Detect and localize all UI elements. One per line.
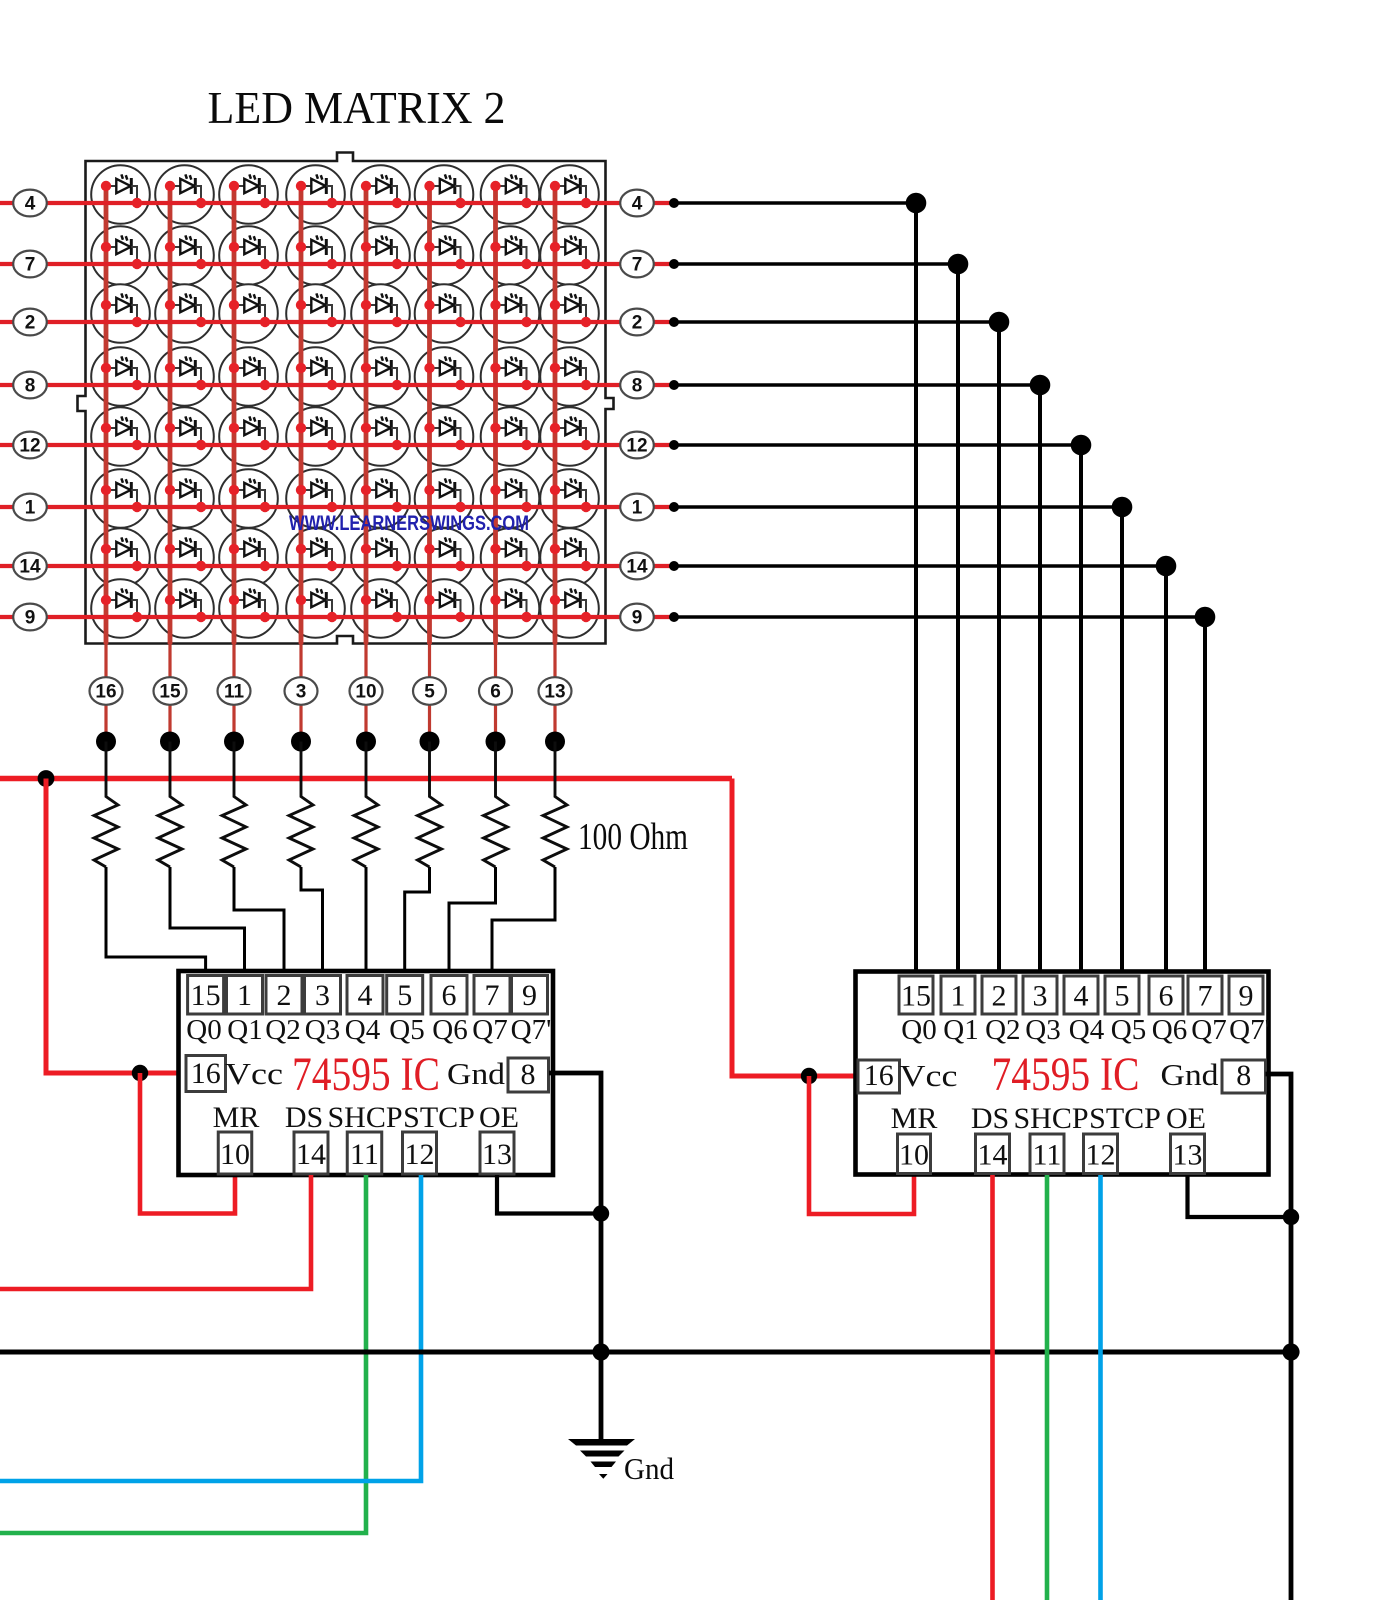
- resistor R8 100 Ohm (column 13): [543, 742, 567, 868]
- U2 pin 6 box: [1149, 976, 1183, 1014]
- svg-text:STCP: STCP: [1089, 1102, 1161, 1135]
- LED row 2 col 10: [361, 293, 402, 327]
- U2 label Gnd: [1161, 1057, 1220, 1092]
- svg-text:Q6: Q6: [1152, 1014, 1187, 1046]
- U1 pin 11 box: [347, 1132, 382, 1174]
- junction column 11 node: [224, 732, 244, 752]
- LED row 7 col 15: [165, 235, 206, 269]
- LED row 4 col 13: [550, 174, 591, 208]
- U2 label MR: [891, 1102, 938, 1135]
- LED row 8 col 10: [361, 356, 402, 390]
- wire U2 OE to ground rail: [1188, 1175, 1292, 1217]
- U1 label DS: [285, 1101, 323, 1134]
- U1 pin 4 box: [347, 976, 383, 1015]
- LED row 4 col 3: [296, 174, 337, 208]
- title label LED MATRIX 2: [208, 82, 506, 133]
- svg-text:13: 13: [482, 1138, 512, 1171]
- resistor R2 100 Ohm (column 15): [158, 742, 182, 868]
- junction small dot row 1: [669, 502, 679, 512]
- LED row 14 col 11: [229, 537, 270, 571]
- wire U2 pin 8 Gnd to bottom edge: [1266, 1074, 1292, 1600]
- column anode wire to pin 3: [299, 186, 304, 742]
- U2 pin 9 box: [1229, 976, 1263, 1014]
- U1 label Q5: [389, 1014, 424, 1046]
- IC U1 74595 body: [179, 971, 554, 1175]
- wire row 8 to U2 pin: [674, 385, 1040, 976]
- LED row 2 col 11: [229, 293, 270, 327]
- LED row 7 col 3: [296, 235, 337, 269]
- junction U2 Vcc / MR tap: [801, 1068, 817, 1084]
- U2 label Q6: [1152, 1014, 1187, 1046]
- LED row 4 col 15: [165, 174, 206, 208]
- junction row 1 / column tap: [1112, 497, 1133, 518]
- svg-text:10: 10: [899, 1139, 929, 1172]
- junction U1 OE / ground rail: [593, 1205, 609, 1221]
- svg-text:14: 14: [296, 1138, 326, 1171]
- svg-text:7: 7: [632, 255, 643, 276]
- svg-text:Q4: Q4: [1069, 1014, 1105, 1046]
- svg-text:Vcc: Vcc: [225, 1056, 283, 1091]
- LED row 4 col 11: [229, 174, 270, 208]
- junction small dot row 12: [669, 440, 679, 450]
- LED row 9 col 13: [550, 588, 591, 622]
- svg-text:Vcc: Vcc: [900, 1058, 958, 1093]
- svg-text:DS: DS: [285, 1101, 323, 1134]
- label Gnd: [624, 1451, 674, 1486]
- junction small dot row 8: [669, 380, 679, 390]
- svg-text:7: 7: [485, 979, 500, 1012]
- row cathode wire pin 14: [0, 564, 674, 568]
- wire U1 OE to ground node: [497, 1175, 601, 1214]
- svg-text:11: 11: [224, 682, 245, 703]
- junction row 14 / column tap: [1156, 556, 1177, 577]
- svg-text:Q7': Q7': [1229, 1014, 1270, 1046]
- svg-text:7: 7: [25, 255, 36, 276]
- matrix row pin 7 (right): [620, 251, 654, 278]
- U2 label SHCP: [1013, 1102, 1088, 1135]
- svg-text:Gnd: Gnd: [624, 1451, 674, 1486]
- row cathode wire pin 4: [0, 201, 674, 205]
- matrix column pin 3 (bottom): [285, 677, 318, 705]
- U1 label Gnd: [447, 1056, 506, 1091]
- svg-text:Q3: Q3: [1025, 1014, 1060, 1046]
- svg-text:15: 15: [191, 979, 221, 1012]
- LED row 2 col 13: [550, 293, 591, 327]
- svg-text:SHCP: SHCP: [1013, 1102, 1088, 1135]
- wire U1 STCP (cyan) to left edge: [0, 1175, 421, 1481]
- wire U1 DS (red) to left edge: [0, 1175, 311, 1289]
- LED row 8 col 6: [490, 356, 531, 390]
- junction row 8 / column tap: [1030, 375, 1051, 396]
- svg-text:Q7: Q7: [472, 1014, 507, 1046]
- U1 pin 6 box: [431, 976, 467, 1015]
- junction small dot row 7: [669, 259, 679, 269]
- junction column 15 node: [160, 732, 180, 752]
- U2 label Q3: [1025, 1014, 1060, 1046]
- svg-text:13: 13: [1173, 1139, 1203, 1172]
- junction bus / U2 ground rail: [1282, 1343, 1299, 1360]
- LED row 7 col 5: [424, 235, 465, 269]
- U2 label Q1: [943, 1014, 978, 1046]
- ground bus wire: [0, 1350, 1291, 1355]
- junction column 16 node: [96, 732, 116, 752]
- wire U2 STCP (cyan) to bottom edge: [1098, 1175, 1103, 1600]
- column anode wire to pin 10: [364, 186, 369, 742]
- LED row 14 col 5: [424, 537, 465, 571]
- U2 label STCP: [1089, 1102, 1161, 1135]
- wire R4 to U1 pin 3: [301, 867, 323, 976]
- U2 label Q7: [1191, 1014, 1226, 1046]
- svg-text:Q5: Q5: [389, 1014, 424, 1046]
- svg-text:9: 9: [632, 608, 643, 629]
- svg-text:7: 7: [1198, 980, 1213, 1013]
- svg-text:Q3: Q3: [305, 1014, 340, 1046]
- LED row 7 col 16: [101, 235, 142, 269]
- wire U1 SHCP (green) to left edge: [0, 1175, 366, 1533]
- LED row 2 col 3: [296, 293, 337, 327]
- svg-text:8: 8: [632, 376, 643, 397]
- resistor R5 100 Ohm (column 10): [354, 742, 378, 868]
- U1 label Q4: [345, 1014, 381, 1046]
- svg-text:WWW.LEARNERSWINGS.COM: WWW.LEARNERSWINGS.COM: [289, 512, 529, 535]
- wire U2 SHCP (green) to bottom edge: [1045, 1175, 1050, 1600]
- junction U1 Vcc / MR tap: [132, 1065, 148, 1081]
- LED row 8 col 5: [424, 356, 465, 390]
- svg-text:10: 10: [220, 1138, 250, 1171]
- LED row 8 col 15: [165, 356, 206, 390]
- junction ground rail / bus: [592, 1343, 609, 1360]
- junction column 6 node: [486, 732, 506, 752]
- U1 label OE: [479, 1101, 519, 1134]
- LED row 12 col 13: [550, 416, 591, 450]
- svg-text:MR: MR: [213, 1101, 260, 1134]
- wire row 2 to U2 pin: [674, 322, 999, 976]
- LED row 12 col 5: [424, 416, 465, 450]
- wire R2 to U1 pin 1: [170, 867, 245, 976]
- LED row 1 col 3: [296, 478, 337, 512]
- LED row 7 col 11: [229, 235, 270, 269]
- matrix row pin 9 (left): [13, 604, 47, 631]
- LED row 7 col 10: [361, 235, 402, 269]
- matrix row pin 1 (right): [620, 494, 654, 521]
- svg-text:5: 5: [397, 979, 412, 1012]
- LED row 7 col 13: [550, 235, 591, 269]
- column anode wire to pin 6: [493, 186, 498, 742]
- U2 label 74595 IC: [992, 1048, 1140, 1101]
- matrix column pin 10 (bottom): [350, 677, 383, 705]
- junction column 3 node: [291, 732, 311, 752]
- LED row 1 col 15: [165, 478, 206, 512]
- resistor R7 100 Ohm (column 6): [484, 742, 508, 868]
- U1 label STCP: [403, 1101, 475, 1134]
- svg-text:4: 4: [1074, 980, 1089, 1013]
- U2 label DS: [971, 1102, 1009, 1135]
- LED row 1 col 16: [101, 478, 142, 512]
- LED row 9 col 6: [490, 588, 531, 622]
- wire row 14 to U2 pin: [674, 566, 1166, 976]
- svg-text:16: 16: [191, 1057, 221, 1090]
- svg-text:12: 12: [405, 1138, 435, 1171]
- wire U2 DS (red) to bottom edge: [990, 1175, 995, 1600]
- U1 pin 13 box: [480, 1132, 514, 1174]
- U1 pin 5 box: [387, 976, 423, 1015]
- LED row 1 col 5: [424, 478, 465, 512]
- svg-text:16: 16: [864, 1059, 894, 1092]
- junction row 2 / column tap: [989, 312, 1010, 333]
- wire R5 to U1 pin 4: [365, 867, 368, 976]
- svg-text:OE: OE: [479, 1101, 519, 1134]
- LED row 12 col 10: [361, 416, 402, 450]
- LED row 8 col 16: [101, 356, 142, 390]
- U1 pin 16 box: [186, 1056, 226, 1092]
- svg-text:2: 2: [25, 313, 36, 334]
- svg-text:Q6: Q6: [432, 1014, 467, 1046]
- svg-text:100 Ohm: 100 Ohm: [578, 816, 688, 858]
- matrix row pin 2 (left): [13, 309, 47, 336]
- U2 label Q0: [901, 1014, 936, 1046]
- svg-text:74595 IC: 74595 IC: [992, 1048, 1140, 1101]
- junction row 4 / column tap: [906, 193, 927, 214]
- U2 pin 16 box: [858, 1059, 900, 1093]
- svg-text:Q5: Q5: [1111, 1014, 1146, 1046]
- junction column 5 node: [420, 732, 440, 752]
- svg-text:1: 1: [25, 498, 36, 519]
- matrix row pin 2 (right): [620, 309, 654, 336]
- svg-text:3: 3: [1033, 980, 1048, 1013]
- svg-text:1: 1: [632, 498, 643, 519]
- column anode wire to pin 13: [553, 186, 558, 742]
- U1 label MR: [213, 1101, 260, 1134]
- U2 pin 11 box: [1030, 1134, 1064, 1174]
- matrix row pin 8 (right): [620, 372, 654, 399]
- junction column 10 node: [356, 732, 376, 752]
- U1 pin 7 box: [474, 976, 510, 1015]
- LED row 9 col 11: [229, 588, 270, 622]
- U1 label Q0: [186, 1014, 221, 1046]
- junction small dot row 9: [669, 612, 679, 622]
- svg-text:Gnd: Gnd: [447, 1056, 506, 1091]
- wire Vcc to U1 pin 16: [46, 779, 178, 1074]
- LED row 12 col 16: [101, 416, 142, 450]
- svg-text:8: 8: [521, 1058, 536, 1091]
- wire R3 to U1 pin 2: [234, 867, 284, 976]
- matrix row pin 12 (left): [13, 432, 47, 459]
- svg-text:LED MATRIX 2: LED MATRIX 2: [208, 82, 506, 133]
- U2 pin 12 box: [1084, 1134, 1118, 1174]
- LED row 4 col 10: [361, 174, 402, 208]
- svg-text:Q7: Q7: [1191, 1014, 1226, 1046]
- svg-text:4: 4: [358, 979, 373, 1012]
- matrix column pin 13 (bottom): [539, 677, 572, 705]
- LED row 14 col 10: [361, 537, 402, 571]
- LED row 12 col 15: [165, 416, 206, 450]
- svg-text:1: 1: [951, 980, 966, 1013]
- LED row 2 col 15: [165, 293, 206, 327]
- U1 label SHCP: [327, 1101, 402, 1134]
- U2 pin 15 box: [899, 976, 933, 1014]
- U1 pin 2 box: [266, 976, 302, 1015]
- svg-text:16: 16: [95, 682, 116, 703]
- svg-text:13: 13: [544, 682, 565, 703]
- U1 pin 9 box: [512, 976, 548, 1015]
- matrix column pin 15 (bottom): [154, 677, 187, 705]
- ground symbol: [568, 1439, 635, 1479]
- wire Vcc to U2 pin 16: [732, 779, 855, 1077]
- wire R1 to U1 pin 15: [106, 867, 206, 976]
- U1 label Q7: [472, 1014, 507, 1046]
- column anode wire to pin 15: [168, 186, 173, 742]
- resistor R1 100 Ohm (column 16): [94, 742, 118, 868]
- svg-text:6: 6: [490, 682, 501, 703]
- matrix row pin 14 (right): [620, 553, 654, 580]
- LED row 2 col 5: [424, 293, 465, 327]
- svg-text:12: 12: [1086, 1139, 1116, 1172]
- LED row 9 col 15: [165, 588, 206, 622]
- junction small dot row 2: [669, 317, 679, 327]
- svg-text:9: 9: [1239, 980, 1254, 1013]
- U2 pin 8 box: [1222, 1059, 1266, 1093]
- U2 label OE: [1166, 1102, 1206, 1135]
- svg-text:Q0: Q0: [901, 1014, 936, 1046]
- wire row 12 to U2 pin: [674, 445, 1081, 976]
- LED row 14 col 3: [296, 537, 337, 571]
- svg-text:5: 5: [1115, 980, 1130, 1013]
- svg-text:6: 6: [1159, 980, 1174, 1013]
- U1 pin 15 box: [188, 976, 224, 1015]
- U2 label Q5: [1111, 1014, 1146, 1046]
- LED row 2 col 16: [101, 293, 142, 327]
- U1 pin 10 box: [218, 1132, 252, 1174]
- svg-text:6: 6: [442, 979, 457, 1012]
- wire R6 to U1 pin 5: [405, 867, 430, 976]
- svg-text:9: 9: [25, 608, 36, 629]
- U1 pin 8 box: [508, 1058, 549, 1092]
- svg-text:9: 9: [522, 979, 537, 1012]
- LED row 14 col 13: [550, 537, 591, 571]
- column anode wire to pin 5: [427, 186, 432, 742]
- matrix column pin 11 (bottom): [218, 677, 251, 705]
- row cathode wire pin 9: [0, 615, 674, 619]
- LED matrix 2 module frame: [78, 153, 614, 644]
- U2 pin 1 box: [941, 976, 975, 1014]
- LED row 7 col 6: [490, 235, 531, 269]
- svg-text:15: 15: [901, 980, 931, 1013]
- resistor R4 100 Ohm (column 3): [289, 742, 313, 868]
- resistor R6 100 Ohm (column 5): [418, 742, 442, 868]
- junction U2 OE / ground rail: [1283, 1209, 1299, 1225]
- junction row 12 / column tap: [1071, 435, 1092, 456]
- LED row 8 col 11: [229, 356, 270, 390]
- matrix row pin 7 (left): [13, 251, 47, 278]
- Vcc supply bus wire (red): [0, 776, 732, 781]
- junction small dot row 14: [669, 561, 679, 571]
- matrix row pin 9 (right): [620, 604, 654, 631]
- LED row 12 col 6: [490, 416, 531, 450]
- wire row 9 to U2 pin: [674, 617, 1205, 976]
- U1 label Q7': [511, 1014, 552, 1046]
- U2 label Vcc: [900, 1058, 958, 1093]
- svg-text:14: 14: [626, 557, 648, 578]
- svg-text:15: 15: [159, 682, 181, 703]
- U1 pin 14 box: [294, 1132, 328, 1174]
- U1 label Vcc: [225, 1056, 283, 1091]
- LED row 12 col 3: [296, 416, 337, 450]
- junction small dot row 4: [669, 198, 679, 208]
- junction row 9 / column tap: [1195, 607, 1216, 628]
- svg-text:11: 11: [350, 1138, 379, 1171]
- resistor R3 100 Ohm (column 11): [222, 742, 246, 868]
- LED row 4 col 16: [101, 174, 142, 208]
- U1 label Q6: [432, 1014, 467, 1046]
- svg-text:12: 12: [19, 436, 40, 457]
- U2 pin 2 box: [982, 976, 1016, 1014]
- LED row 14 col 15: [165, 537, 206, 571]
- LED row 9 col 3: [296, 588, 337, 622]
- svg-text:Q2: Q2: [985, 1014, 1020, 1046]
- LED row 14 col 16: [101, 537, 142, 571]
- LED row 2 col 6: [490, 293, 531, 327]
- U1 label Q3: [305, 1014, 340, 1046]
- U2 label Q2: [985, 1014, 1020, 1046]
- label 100 Ohm: [578, 816, 688, 858]
- wire row 4 to U2 pin: [674, 203, 916, 976]
- column anode wire to pin 11: [232, 186, 237, 742]
- U1 pin 1 box: [227, 976, 263, 1015]
- matrix column pin 5 (bottom): [413, 677, 446, 705]
- IC U2 74595 body: [856, 972, 1269, 1175]
- svg-text:STCP: STCP: [403, 1101, 475, 1134]
- U2 pin 14 box: [976, 1134, 1010, 1174]
- svg-text:Q0: Q0: [186, 1014, 221, 1046]
- matrix column pin 6 (bottom): [479, 677, 512, 705]
- LED row 1 col 10: [361, 478, 402, 512]
- U1 label Q1: [227, 1014, 262, 1046]
- wire row 1 to U2 pin: [674, 507, 1122, 976]
- U2 pin 13 box: [1171, 1134, 1205, 1174]
- matrix row pin 8 (left): [13, 372, 47, 399]
- svg-text:3: 3: [315, 979, 330, 1012]
- svg-text:4: 4: [632, 194, 643, 215]
- row cathode wire pin 1: [0, 505, 674, 509]
- U2 label Q7': [1229, 1014, 1270, 1046]
- wire U1 MR loop pin10 to Vcc: [140, 1073, 235, 1214]
- LED row 4 col 5: [424, 174, 465, 208]
- LED row 1 col 6: [490, 478, 531, 512]
- svg-text:Q4: Q4: [345, 1014, 381, 1046]
- LED row 14 col 6: [490, 537, 531, 571]
- row cathode wire pin 12: [0, 443, 674, 447]
- svg-text:OE: OE: [1166, 1102, 1206, 1135]
- wire row 7 to U2 pin: [674, 264, 958, 976]
- row cathode wire pin 8: [0, 383, 674, 387]
- junction Vcc bus / U1 tap: [38, 770, 55, 787]
- LED row 1 col 11: [229, 478, 270, 512]
- svg-text:74595 IC: 74595 IC: [292, 1048, 440, 1101]
- wire U1 pin 8 Gnd to ground rail: [549, 1073, 601, 1441]
- svg-text:2: 2: [632, 313, 643, 334]
- svg-text:2: 2: [992, 980, 1007, 1013]
- LED row 9 col 5: [424, 588, 465, 622]
- U1 label Q2: [265, 1014, 300, 1046]
- svg-text:14: 14: [19, 557, 41, 578]
- matrix row pin 4 (left): [13, 190, 47, 217]
- U1 pin 12 box: [403, 1132, 437, 1174]
- watermark WWW.LEARNERSWINGS.COM: [289, 512, 529, 535]
- LED row 4 col 6: [490, 174, 531, 208]
- matrix row pin 1 (left): [13, 494, 47, 521]
- svg-text:SHCP: SHCP: [327, 1101, 402, 1134]
- svg-text:1: 1: [237, 979, 252, 1012]
